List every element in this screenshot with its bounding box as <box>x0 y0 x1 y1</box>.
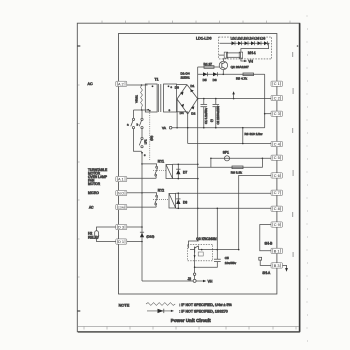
svg-text:Q2 2SA1267: Q2 2SA1267 <box>231 65 249 69</box>
svg-text:AC: AC <box>89 205 94 209</box>
svg-text:VH: VH <box>208 280 213 284</box>
linkage RY2 dashed <box>153 198 169 200</box>
svg-text:Q3 KRC243M: Q3 KRC243M <box>196 237 217 241</box>
page border frame <box>77 21 299 332</box>
svg-text:D5: D5 <box>203 78 207 82</box>
wire LED chain <box>220 42 270 44</box>
resistor R6 3.3k <box>232 166 243 169</box>
diode D8 <box>177 193 179 208</box>
wire SP1 row to C5 <box>211 157 271 159</box>
svg-text:D2: D2 <box>191 111 195 115</box>
transistor Q2 2SA1267 <box>219 58 227 70</box>
svg-text:C2 2200u/25v: C2 2200u/25v <box>216 105 220 124</box>
svg-text:RY1: RY1 <box>158 159 164 163</box>
wire RY2 bottom drop <box>216 208 218 249</box>
bridge diodes arrows <box>180 89 194 109</box>
varistor VRS1 <box>141 85 143 110</box>
svg-text:C 4: C 4 <box>274 142 281 147</box>
wire D1 row <box>127 241 142 243</box>
connector C5 <box>271 155 283 160</box>
svg-text:C1 0.1u/50v: C1 0.1u/50v <box>204 107 208 124</box>
diode D6 <box>213 72 217 76</box>
terminal N.O <box>116 190 127 195</box>
terminal COM <box>116 204 127 209</box>
wire AC line bottom <box>134 109 149 111</box>
svg-text:D 3: D 3 <box>118 225 124 230</box>
arrow B3 out <box>282 265 287 268</box>
jumper SH-A post <box>259 257 262 260</box>
capacitor C1 0.1u/50v <box>201 98 208 129</box>
wire right drop to C3 and minus rail <box>264 74 266 127</box>
connector C3 <box>271 111 283 116</box>
node bus junctions <box>197 164 199 166</box>
connector C6 <box>271 173 283 178</box>
arrow VH <box>244 60 247 62</box>
wire SH-B link <box>260 225 271 251</box>
wire COM row <box>127 206 156 208</box>
svg-text:VH: VH <box>248 60 253 64</box>
svg-text:R4 27: R4 27 <box>204 62 213 66</box>
wire collector row <box>199 249 239 251</box>
svg-text:(-): (-) <box>210 119 214 122</box>
buzzer SP1 <box>224 156 229 161</box>
wire MH-1 left stub <box>219 54 225 56</box>
svg-text:C5: C5 <box>225 256 229 260</box>
wire NO row <box>127 192 142 194</box>
svg-text:C 2: C 2 <box>274 96 280 101</box>
connector C4 <box>271 141 283 146</box>
svg-text:R5 4.7k: R5 4.7k <box>236 76 247 80</box>
node b <box>149 110 151 112</box>
svg-text:T1: T1 <box>155 78 159 82</box>
svg-text:D7: D7 <box>183 170 187 174</box>
node C3 tap <box>264 113 266 115</box>
node Q2 emitter tap <box>223 74 225 76</box>
main circuit box <box>119 34 277 295</box>
svg-text:N.O: N.O <box>118 192 124 196</box>
svg-text:c: c <box>144 153 146 157</box>
svg-text:10u/35v: 10u/35v <box>225 261 237 265</box>
svg-text:A 2: A 2 <box>118 81 124 86</box>
resistor note symbol <box>146 303 175 306</box>
wire D3 row <box>127 226 142 228</box>
bridge diamond D1-D4 <box>177 85 198 114</box>
diode D7 <box>177 164 179 178</box>
svg-text:LF1: LF1 <box>144 139 148 144</box>
svg-text:C 8: C 8 <box>274 206 280 211</box>
node minus rail joins <box>187 127 189 129</box>
wire coil top row to C7 <box>176 192 271 194</box>
terminal A1 <box>116 176 127 181</box>
H2 relay coil external <box>97 227 116 231</box>
svg-text:MH-1: MH-1 <box>248 51 256 55</box>
Q3 dashed box <box>188 244 213 260</box>
svg-text:VRS1: VRS1 <box>135 95 139 103</box>
connector C1 <box>271 81 283 86</box>
svg-text:D4: D4 <box>180 111 184 115</box>
wire plus rail <box>198 98 276 100</box>
wire A1 row <box>127 177 156 179</box>
LED block dashed box <box>219 37 272 59</box>
relay RY2 contact <box>142 193 157 195</box>
svg-text:R6 3.3k: R6 3.3k <box>231 170 242 174</box>
svg-text:MICRO: MICRO <box>88 191 99 195</box>
svg-text:SP1: SP1 <box>223 151 229 155</box>
svg-text:LD1-LD6: LD1-LD6 <box>196 36 212 40</box>
svg-text:C 9: C 9 <box>274 222 280 227</box>
svg-text:: IF NOT SPECIFIED, 1/4w ± 5%: : IF NOT SPECIFIED, 1/4w ± 5% <box>179 303 232 307</box>
transformer T1 secondary <box>164 84 177 112</box>
node VRS1 top <box>141 84 143 86</box>
svg-text:COM: COM <box>118 206 125 210</box>
svg-text:Power Unit Circuit: Power Unit Circuit <box>171 318 211 323</box>
wire D5 D6 row <box>198 73 265 75</box>
svg-text:D6: D6 <box>213 78 217 82</box>
wire VH rail left <box>142 280 193 282</box>
connector C9 <box>271 222 283 227</box>
wire emitter to J2 <box>194 260 196 273</box>
terminal D1 <box>116 239 127 244</box>
svg-text:11ES1: 11ES1 <box>181 75 191 79</box>
capacitor C5 10u/35v <box>195 250 221 268</box>
wire R6 loop <box>211 158 263 167</box>
terminal D3 <box>116 224 127 229</box>
svg-text:C 5: C 5 <box>274 155 280 160</box>
wire secondary top to bridge <box>177 84 188 86</box>
connector C7 <box>271 190 283 195</box>
svg-text:RY2: RY2 <box>158 188 164 192</box>
diode D10 <box>141 227 143 242</box>
node C4 branch <box>242 127 244 129</box>
linkage dashed <box>149 111 151 160</box>
resistor R4 27 <box>204 66 214 69</box>
wire C6 feed <box>239 175 271 249</box>
wire bridge bottom to minus rail <box>187 112 189 144</box>
svg-text:R3 810 1/2w: R3 810 1/2w <box>245 132 264 136</box>
svg-text:C 1: C 1 <box>274 81 280 86</box>
wire to C4 <box>188 143 271 145</box>
wire MH-1 to VH arrow <box>241 58 245 61</box>
wire coil top row <box>173 163 198 165</box>
svg-text:B 3: B 3 <box>274 263 280 268</box>
wire main drive bus vertical <box>189 241 198 248</box>
svg-text:e: e <box>169 109 171 112</box>
svg-text:C 6: C 6 <box>274 173 280 178</box>
svg-text:SH-B: SH-B <box>265 242 273 246</box>
svg-text:AC: AC <box>88 82 94 86</box>
svg-text:NOTE: NOTE <box>119 303 130 307</box>
wire coil bottom row <box>173 178 198 180</box>
linkage RY1 dashed <box>153 170 166 172</box>
arrow VH out <box>196 280 204 282</box>
svg-text:B 1: B 1 <box>274 248 280 253</box>
diode note symbol <box>147 310 174 312</box>
node c <box>141 152 143 154</box>
wire minus rail VA <box>169 126 172 129</box>
svg-text:MOTOR: MOTOR <box>88 182 101 186</box>
connector B3 <box>271 263 283 268</box>
diode D5 <box>203 72 207 76</box>
svg-text:(D10): (D10) <box>146 234 154 238</box>
svg-text:: IF NOT SPECIFIED, 1SS270: : IF NOT SPECIFIED, 1SS270 <box>179 309 228 313</box>
switch LF1 <box>141 137 143 139</box>
wire SH-A link <box>260 260 271 265</box>
node contact tap <box>141 163 143 165</box>
wire secondary bottom to bridge <box>177 111 188 113</box>
wire D1 to VH rail <box>141 242 143 282</box>
relay RY2 coil <box>169 193 176 208</box>
LED diodes LD1-LD6 <box>232 41 268 45</box>
wire left switch chain <box>133 110 135 118</box>
wire AC line top <box>127 84 148 86</box>
svg-text:SH-A: SH-A <box>262 271 271 275</box>
node test point arrow <box>233 98 235 100</box>
svg-text:D3: D3 <box>175 85 179 89</box>
svg-text:b: b <box>137 122 139 126</box>
svg-text:(3b): (3b) <box>149 136 153 141</box>
capacitor C2 2200u/25v <box>213 98 220 129</box>
relay RY1 contact <box>142 164 157 166</box>
connector C8 <box>271 206 283 211</box>
wire LED return loop <box>241 43 269 52</box>
wire bridge minus vertex to rail <box>176 99 178 128</box>
wire common vertical <box>141 153 143 227</box>
svg-text:C 7: C 7 <box>274 190 280 195</box>
svg-text:A 1: A 1 <box>118 177 124 182</box>
wire R4 row <box>198 66 220 68</box>
svg-text:a: a <box>127 122 129 126</box>
wire right switch chain <box>141 110 143 118</box>
svg-text:RELAY: RELAY <box>88 235 100 239</box>
node vertical feed from bridge plus <box>197 67 199 241</box>
terminal A2 <box>116 81 127 86</box>
svg-text:LD1 LD2 LD3 LD4 LD5 LD6: LD1 LD2 LD3 LD4 LD5 LD6 <box>231 37 266 41</box>
switch SW-b <box>141 118 143 120</box>
svg-text:e: e <box>171 86 173 89</box>
node d <box>141 109 143 111</box>
svg-text:VA: VA <box>162 126 167 130</box>
heater MH-1 <box>224 52 243 58</box>
transistor Q3 <box>190 246 203 260</box>
transformer T1 core <box>157 84 159 112</box>
svg-text:D1: D1 <box>190 84 194 88</box>
connector B1 <box>271 248 283 253</box>
node contact tap <box>141 192 143 194</box>
svg-text:J2: J2 <box>188 277 192 281</box>
svg-text:D 1: D 1 <box>118 239 124 244</box>
svg-text:D8: D8 <box>183 200 187 204</box>
wire coil bottom row to C8 <box>176 207 271 209</box>
connector C2 <box>271 95 283 100</box>
wire branch from bus <box>198 158 211 167</box>
svg-text:C 3: C 3 <box>274 111 280 116</box>
switch SW-a <box>132 118 134 120</box>
transformer T1 primary <box>145 84 157 112</box>
relay RY1 coil <box>166 165 173 179</box>
resistor R5 4.7k <box>243 73 254 76</box>
jumper J2 <box>193 273 195 275</box>
